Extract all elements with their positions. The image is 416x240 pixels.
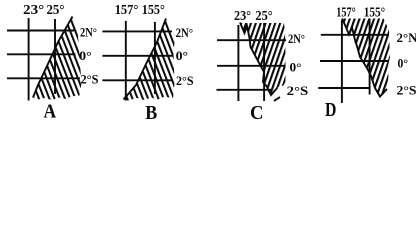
panel C horizontal parallel 2S (217, 89, 273, 91)
panel C vertical meridian line 25 (263, 23, 265, 101)
panel B horizontal parallel 2S (102, 79, 173, 81)
panel B vertical meridian line 157 (125, 21, 127, 101)
svg-text:157°: 157° (336, 6, 356, 21)
svg-text:0°: 0° (176, 49, 189, 63)
svg-text:0°: 0° (79, 49, 92, 63)
svg-text:25°: 25° (47, 2, 65, 17)
panel B horizontal parallel 2N (102, 30, 172, 32)
svg-text:D: D (325, 99, 336, 121)
panel B horizontal parallel 0 (102, 55, 172, 57)
svg-text:0°: 0° (398, 57, 409, 71)
svg-text:2°N: 2°N (397, 31, 416, 45)
svg-text:2°S: 2°S (397, 84, 416, 98)
panel C stray hatch stroke below tail (274, 97, 280, 101)
svg-text:0°: 0° (290, 61, 302, 75)
svg-text:157°: 157° (115, 2, 139, 17)
svg-text:23°: 23° (234, 8, 251, 23)
panel C horizontal parallel 2N (217, 39, 286, 41)
panel C coastline boundary (240, 23, 278, 96)
svg-text:B: B (145, 102, 157, 122)
svg-text:155°: 155° (142, 2, 165, 17)
svg-text:25°: 25° (255, 8, 272, 23)
panel A coastline boundary (33, 17, 73, 98)
panel A horizontal parallel 2S (7, 77, 80, 79)
panel C horizontal parallel 0 (217, 65, 284, 67)
panel A horizontal parallel 2N (7, 30, 74, 32)
svg-text:2°S: 2°S (81, 73, 99, 87)
svg-text:2N°: 2N° (288, 32, 305, 46)
panel B hatched land area (124, 19, 176, 101)
panel D horizontal parallel 2N (321, 34, 389, 36)
panel C hatched land area (240, 23, 286, 95)
panel D hatched land area (342, 19, 390, 97)
svg-text:23°: 23° (23, 2, 44, 17)
panel A vertical meridian line 25 (54, 19, 56, 94)
svg-text:C: C (250, 102, 264, 122)
panel D vertical meridian line 155 (369, 19, 371, 95)
panel C vertical meridian line 23 (237, 25, 239, 101)
panel D horizontal parallel 0 (320, 60, 389, 62)
panel A vertical meridian line 23 (28, 18, 30, 101)
svg-text:2°S: 2°S (176, 74, 194, 88)
panel D horizontal parallel 2S (318, 87, 370, 89)
panel A horizontal parallel 0 (7, 53, 76, 55)
svg-text:2N°: 2N° (80, 26, 97, 40)
svg-text:2°S: 2°S (287, 84, 309, 98)
panel B coastline boundary (124, 19, 167, 100)
svg-text:155°: 155° (364, 6, 385, 21)
panel D vertical meridian line 157 (341, 20, 343, 103)
panel A hatched land area (33, 17, 82, 101)
panel B vertical meridian line 155 (154, 22, 156, 94)
svg-text:2N°: 2N° (176, 26, 194, 40)
svg-text:A: A (44, 101, 57, 122)
panel D coastline boundary (342, 19, 387, 97)
